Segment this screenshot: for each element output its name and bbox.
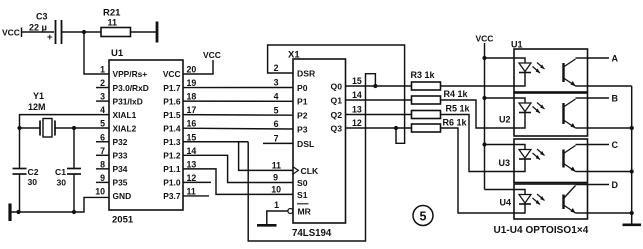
power label VCC (opto rail): [476, 34, 494, 44]
svg-text:S1: S1: [297, 190, 308, 200]
svg-text:12: 12: [187, 173, 197, 183]
wire VCC to U4 opto anode: [485, 189, 515, 191]
capacitor C1 30: [55, 167, 81, 188]
U1 pin numbers left (1-10): [95, 65, 105, 197]
svg-text:13: 13: [187, 159, 197, 169]
svg-text:74LS194: 74LS194: [292, 228, 332, 239]
svg-text:P3.7: P3.7: [163, 191, 181, 201]
wire VCC to U2 opto anode: [485, 97, 515, 99]
svg-text:P2: P2: [297, 111, 308, 121]
svg-text:8: 8: [100, 159, 105, 169]
junction node on Q3 line: [394, 126, 398, 130]
svg-text:VCC: VCC: [2, 28, 20, 38]
node emitter U2: [630, 126, 634, 130]
svg-text:Q0: Q0: [331, 81, 343, 91]
node emitter U4: [630, 211, 634, 215]
node crystal right: [72, 126, 76, 130]
svg-text:5: 5: [274, 105, 279, 115]
wire P1.3 to X1 CLK and feedback riser head: [183, 141, 248, 143]
wire RST node down to U1 pin 1: [84, 32, 109, 74]
wire bottom run from P1.3 node to Q0 hop: [248, 74, 375, 241]
node C2 to gnd rail: [16, 210, 20, 214]
svg-text:P1: P1: [297, 97, 308, 107]
svg-text:P3.0/RxD: P3.0/RxD: [113, 83, 149, 93]
svg-text:P33: P33: [113, 151, 128, 161]
ground bar (bottom right): [623, 224, 642, 227]
svg-text:Q1: Q1: [331, 95, 343, 105]
svg-text:MR: MR: [298, 207, 312, 217]
svg-text:30: 30: [56, 178, 66, 188]
wire R4 to U2 opto cathode: [441, 100, 515, 128]
optocoupler U2: [499, 93, 588, 136]
wire P1.2 to X1 S0: [183, 155, 293, 182]
svg-text:P3: P3: [297, 124, 308, 134]
svg-text:U1: U1: [111, 48, 124, 59]
junction node on Q0 line: [373, 84, 377, 88]
svg-text:B: B: [612, 93, 619, 103]
wire U1 pin4 XIAL1 to crystal left: [20, 115, 110, 128]
crystal Y1 12M: [28, 91, 55, 137]
power label VCC (above U1 pin 20): [203, 50, 221, 60]
svg-text:U2: U2: [499, 115, 511, 125]
U1 pin numbers right (20-11): [187, 65, 197, 197]
svg-text:P35: P35: [113, 178, 128, 188]
svg-text:9: 9: [100, 173, 105, 183]
svg-text:U1-U4 OPTOISO1×4: U1-U4 OPTOISO1×4: [494, 225, 589, 236]
ground terminal bar (bottom left): [8, 204, 11, 222]
svg-text:4: 4: [274, 92, 279, 102]
svg-text:11: 11: [187, 186, 196, 196]
svg-text:30: 30: [28, 177, 38, 187]
wire R21 to terminal: [131, 31, 157, 33]
svg-text:P1.3: P1.3: [163, 137, 181, 147]
optocoupler U1: [511, 40, 588, 93]
node VCC-U3: [482, 142, 486, 146]
svg-text:16: 16: [187, 119, 197, 129]
svg-text:C1: C1: [55, 167, 66, 177]
resistor R5 1k: [412, 104, 471, 119]
wire Q1 to R4: [346, 99, 412, 101]
wire Q3 to R6: [346, 127, 412, 129]
node VCC-U2: [482, 96, 486, 100]
terminal bar right of R21: [156, 22, 159, 43]
wire C1 rail: [73, 128, 75, 212]
svg-text:P1.0: P1.0: [163, 178, 181, 188]
optocoupler U4: [500, 184, 588, 219]
svg-text:XIAL2: XIAL2: [113, 123, 137, 133]
capacitor C3 22u (polarized): [29, 12, 62, 45]
node emitter U3: [630, 169, 634, 173]
wire X1 DSL stub: [263, 142, 293, 144]
wire crystal line (pin5 XIAL2): [20, 127, 110, 129]
wire output B: [588, 93, 619, 103]
svg-text:P1.6: P1.6: [163, 96, 181, 106]
wire output D: [588, 180, 619, 190]
svg-text:3: 3: [274, 78, 279, 88]
svg-text:P0: P0: [297, 83, 308, 93]
svg-text:P31/IxD: P31/IxD: [113, 96, 143, 106]
svg-text:11: 11: [272, 161, 281, 171]
svg-text:GND: GND: [113, 191, 132, 201]
wire C2 rail: [19, 128, 21, 212]
svg-text:5: 5: [100, 119, 105, 129]
U1 left NC pin stubs 2,3,6,7,8,9: [96, 88, 109, 183]
svg-text:P1.2: P1.2: [163, 151, 181, 161]
svg-text:19: 19: [187, 78, 197, 88]
wire Q3 feedback to DSR: [268, 45, 405, 143]
wire Q0 to R3: [346, 85, 412, 87]
inversion bubble X1 MR: [288, 209, 293, 214]
wire output A: [588, 53, 619, 63]
svg-text:XIAL1: XIAL1: [113, 110, 137, 120]
node VCC-U1: [482, 56, 486, 60]
svg-text:R5 1k: R5 1k: [446, 104, 471, 114]
ground bar X1 MR: [257, 224, 277, 227]
svg-text:13: 13: [352, 105, 362, 115]
IC X1 74LS194 body: [288, 50, 346, 240]
svg-text:R6 1k: R6 1k: [443, 118, 468, 128]
svg-text:R4 1k: R4 1k: [444, 89, 469, 99]
resistor R6 1k: [412, 118, 468, 133]
svg-text:10: 10: [271, 185, 281, 195]
wire Q2 to R5: [346, 114, 412, 116]
svg-text:X1: X1: [288, 50, 300, 61]
svg-text:A: A: [612, 53, 619, 63]
node C1 to gnd rail: [72, 210, 76, 214]
wire U1 pin20 to VCC: [183, 60, 213, 74]
svg-text:Y1: Y1: [33, 91, 44, 101]
wire VCC to U3 opto anode: [485, 144, 515, 146]
wire P1.1 to X1 S1: [183, 169, 293, 195]
svg-text:CLK: CLK: [301, 166, 319, 176]
wire R3 to U1 opto cathode: [441, 85, 515, 87]
wire U1 pin10 GND to bottom rail: [10, 197, 109, 212]
svg-text:15: 15: [187, 132, 197, 142]
svg-text:2051: 2051: [112, 215, 134, 226]
svg-text:7: 7: [100, 146, 105, 156]
svg-text:D: D: [612, 180, 619, 190]
svg-text:U4: U4: [500, 198, 512, 208]
svg-text:4: 4: [100, 105, 105, 115]
wire VCC to C3: [22, 31, 55, 33]
svg-text:2: 2: [274, 63, 279, 73]
svg-text:20: 20: [187, 65, 197, 75]
svg-text:+: +: [47, 32, 53, 43]
svg-text:6: 6: [274, 119, 279, 129]
svg-text:DSL: DSL: [297, 139, 314, 149]
wire emitter rail: [588, 86, 632, 224]
svg-text:6: 6: [100, 132, 105, 142]
svg-text:Q2: Q2: [331, 110, 343, 120]
svg-text:P1.4: P1.4: [163, 123, 181, 133]
svg-text:C2: C2: [28, 167, 39, 177]
svg-text:3: 3: [100, 92, 105, 102]
wire R5 to U3 opto cathode: [441, 115, 515, 172]
svg-text:14: 14: [187, 146, 197, 156]
svg-text:12: 12: [352, 118, 362, 128]
svg-text:9: 9: [273, 173, 278, 183]
svg-text:15: 15: [352, 76, 362, 86]
wire P3.7 stub: [183, 195, 209, 197]
svg-text:VPP/Rs+: VPP/Rs+: [113, 69, 148, 79]
svg-text:2: 2: [100, 78, 105, 88]
resistor R4 1k: [412, 89, 469, 104]
svg-text:5: 5: [420, 210, 427, 224]
capacitor C2 30: [13, 167, 39, 187]
svg-text:18: 18: [187, 92, 197, 102]
X1 pin numbers left: [271, 63, 281, 210]
svg-text:P1.5: P1.5: [163, 110, 181, 120]
resistor R3 1k: [411, 70, 441, 90]
wire R6 to U4 opto cathode: [441, 128, 515, 213]
svg-text:VCC: VCC: [163, 69, 181, 79]
X1 pin numbers right (15-12): [352, 76, 362, 128]
wire VCC rail: [484, 43, 486, 190]
wire output C: [588, 140, 619, 150]
svg-text:10: 10: [95, 186, 105, 196]
svg-text:22 μ: 22 μ: [29, 23, 47, 33]
optocoupler U3: [499, 139, 588, 183]
svg-text:S0: S0: [297, 178, 308, 188]
wire VCC to U1 opto anode: [485, 57, 515, 59]
svg-text:11: 11: [108, 18, 118, 28]
svg-text:P1.1: P1.1: [163, 164, 181, 174]
IC U1 AT89C2051 body: [109, 48, 183, 226]
wire P1.7 to X1 P0: [183, 87, 293, 89]
wire P1.0 stub: [183, 181, 211, 183]
wire CLK riser: [239, 142, 293, 171]
svg-text:VCC: VCC: [203, 50, 221, 60]
figure number 5 (circled): [413, 206, 433, 226]
svg-text:U3: U3: [499, 158, 511, 168]
wire P1.6 to X1 P1: [183, 100, 293, 102]
svg-text:1: 1: [274, 200, 279, 210]
svg-text:P32: P32: [113, 137, 128, 147]
svg-text:1: 1: [100, 65, 105, 75]
power label VCC (top left): [2, 28, 22, 38]
svg-text:U1: U1: [511, 40, 523, 50]
svg-text:P34: P34: [113, 164, 128, 174]
wire C3 to R21 (RST node): [62, 31, 102, 33]
wire P1.4 to X1 P3: [183, 127, 293, 130]
resistor R21 value 11: [101, 8, 131, 37]
svg-text:R3 1k: R3 1k: [411, 70, 436, 80]
caption U1-U4 OPTOISO1x4: [494, 225, 589, 236]
junction node RST: [82, 30, 86, 34]
svg-text:P1.7: P1.7: [163, 83, 181, 93]
svg-text:17: 17: [187, 105, 197, 115]
svg-text:12M: 12M: [28, 102, 46, 112]
svg-text:7: 7: [274, 134, 279, 144]
svg-text:C3: C3: [36, 12, 48, 22]
node crystal left: [17, 126, 21, 130]
wire P1.5 to X1 P2: [183, 114, 293, 117]
wire MR to ground: [267, 211, 288, 225]
svg-text:DSR: DSR: [297, 68, 316, 78]
svg-text:VCC: VCC: [476, 34, 494, 44]
svg-text:C: C: [612, 140, 619, 150]
svg-text:Q3: Q3: [331, 123, 343, 133]
svg-text:14: 14: [352, 90, 362, 100]
